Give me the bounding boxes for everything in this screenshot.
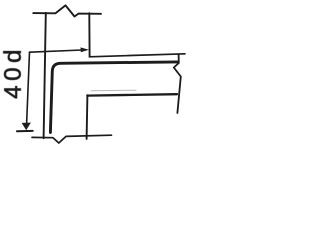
top break line <box>33 5 101 16</box>
beam bottom edge <box>87 94 177 95</box>
column right edge upper <box>88 13 90 56</box>
beam bottom inner faint line <box>91 89 136 92</box>
rebar: beam top bar bent down into column <box>50 62 178 133</box>
svg-text:40d: 40d <box>0 45 27 99</box>
dimension end tick <box>17 130 33 132</box>
dimension leader line top <box>30 50 83 52</box>
column left edge <box>44 13 46 138</box>
bottom break line <box>32 135 112 143</box>
dimension vertical line 40d <box>27 52 30 124</box>
arrowhead down at bar end <box>22 123 31 131</box>
arrowhead right at column face <box>81 47 90 52</box>
beam top edge <box>90 54 186 57</box>
column right edge lower <box>86 95 89 139</box>
beam right break line <box>174 54 181 113</box>
